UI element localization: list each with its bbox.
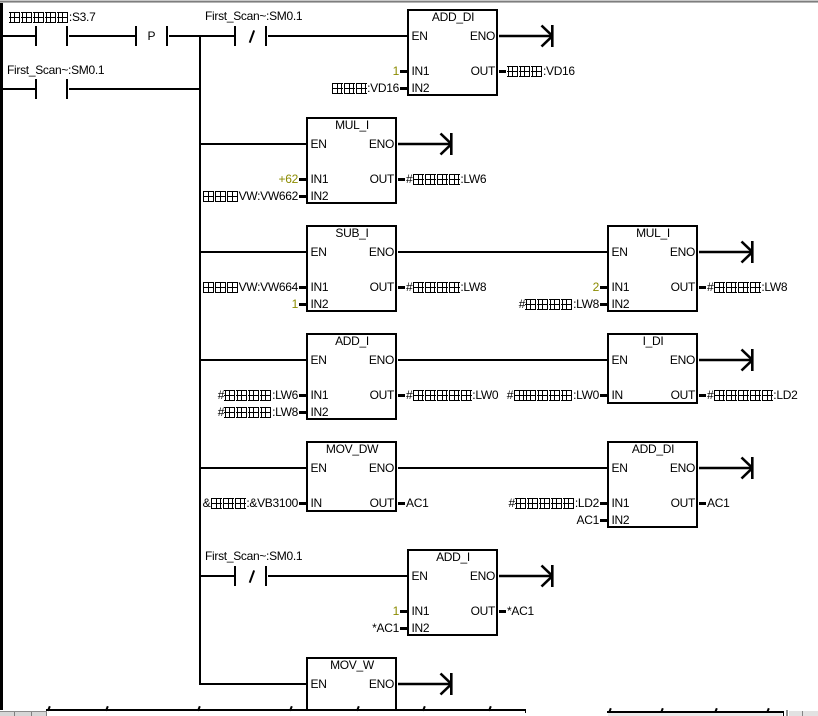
operand *AC1 at OUT U9 [507,605,534,617]
pin label EN U7 [311,462,327,474]
operand (CJK):VD16 at OUT U1 [507,65,575,77]
box ADD_DI U8 [607,441,698,528]
stub IN2 U8 [600,519,607,522]
pin label IN1 U9 [412,605,430,617]
label NC contact First_Scan~:SM0.1 rung7 [205,550,302,562]
box ADD_I U5 [306,333,397,420]
toolbar bottom edge (top gray strip) [0,0,818,1]
operand AC1 at OUT U8 [707,497,729,509]
pin label ENO U5 [369,354,394,366]
constant 1 at IN1 U9 [393,605,399,617]
pin label OUT U2 [370,173,394,185]
box ADD_DI U1 [407,9,498,96]
pin label EN U2 [311,138,327,150]
box MUL_I U2 [306,117,397,204]
operand #(CJK):LW8 at IN2 U4 [519,298,599,310]
bottom-left header cells gray line [0,711,47,712]
label contact K1 operand (CJK):S3.7 [9,11,95,23]
stub IN1 U6 [600,394,607,397]
operand (CJK)VW:VW662 at IN2 U2 [203,190,298,202]
stub IN1 U3 [299,286,306,289]
stub OUT U5 [398,394,405,397]
NC contact rung7 slash [249,570,255,582]
pin label IN U7 [311,497,322,509]
pin label OUT U3 [370,281,394,293]
bottom-right corner cells [786,710,788,716]
open wire arrow rung6 [699,455,759,481]
title ADD_I U5 [306,335,398,347]
pin label OUT U8 [671,497,695,509]
P edge contact bar2 [166,26,169,46]
pin label ENO U8 [670,462,695,474]
bottom right grid tick at x=609 [608,708,611,713]
constant 1 at IN1 U1 [393,65,399,77]
rung1 wire: K1 to P contact [69,35,136,38]
operand (CJK)VW:VW664 at IN1 U3 [203,281,298,293]
stub IN1 U8 [600,502,607,505]
rung2 wire: rail to contact K2 [2,88,35,91]
pin label IN1 U1 [412,65,430,77]
NC contact rung1 slash [249,30,255,42]
pin label IN2 U2 [311,190,329,202]
pin label EN U9 [412,570,428,582]
open wire arrow rung1 [499,23,559,49]
operand *AC1 at IN2 U9 [372,622,399,634]
pin label OUT U6 [671,389,695,401]
bottom right grid fill [608,713,782,716]
rung1 wire: P contact to NC contact junction [169,35,235,38]
operand #(CJK):LD2 at IN1 U8 [509,497,599,509]
title MUL_I U2 [306,119,398,131]
pin label EN U3 [311,246,327,258]
stub IN1 U9 [400,610,407,613]
NC contact rung1 bar1 [234,26,237,46]
rung7 wire: trunk to NC contact [199,575,234,578]
title MOV_DW U7 [306,443,398,455]
NC contact rung1 bar2 [265,26,268,46]
label contact K2 First_Scan~:SM0.1 [7,64,104,76]
P edge contact letter [148,30,156,42]
pin label OUT U4 [671,281,695,293]
pin label IN2 U9 [412,622,430,634]
contact K1 bar2 [66,26,69,46]
stub IN2 U3 [299,303,306,306]
stub IN2 U5 [299,411,306,414]
pin label IN2 U4 [612,298,630,310]
pin label IN1 U5 [311,389,329,401]
box ADD_I U9 [407,549,498,636]
pin label EN U5 [311,354,327,366]
bottom grid tick at x=357 [356,706,359,711]
pin label OUT U5 [370,389,394,401]
bottom grid tick at x=198 [197,706,200,711]
rung1 wire: rail to contact K1 [2,35,35,38]
operand &(CJK):&VB3100 at IN U7 [203,497,298,509]
operand #(CJK):LW6 at IN1 U5 [218,389,298,401]
stub OUT U2 [398,178,405,181]
rung8 wire: trunk corner to MOV_W EN [199,683,306,686]
stub IN1 U2 [299,178,306,181]
rung4 wire: SUB_I ENO to MUL_I EN [398,251,607,254]
contact K2 bar1 [35,79,38,99]
pin label IN1 U4 [612,281,630,293]
bottom right grid end cap [783,711,785,716]
box I_DI U6 [607,333,698,404]
pin label ENO U10 [369,678,394,690]
stub IN1 U4 [600,286,607,289]
pin label ENO U1 [470,30,495,42]
pin label ENO U3 [369,246,394,258]
operand #(CJK):LW0 at OUT U5 [406,389,498,401]
bottom right grid tick at x=715 [714,708,717,713]
rung6 wire: trunk to MOV_DW EN [199,467,306,470]
rung5 wire: trunk to ADD_I EN [199,359,306,362]
rung2 wire: K2 to trunk [69,88,201,91]
bottom grid tick at x=489 [488,706,491,711]
NC contact rung7 bar1 [234,566,237,586]
bottom right grid tick at x=767 [766,708,769,713]
pin label IN2 U8 [612,514,630,526]
rung4 wire: trunk to SUB_I EN [199,251,306,254]
operand AC1 at IN2 U8 [577,514,599,526]
bottom grid tick at x=106 [105,706,108,711]
pin label IN2 U1 [412,82,430,94]
label NC contact First_Scan~:SM0.1 rung1 [205,10,302,22]
title MOV_W U10 [306,659,398,671]
constant 2 at IN1 U4 [593,281,599,293]
stub IN2 U2 [299,195,306,198]
rung7 wire: NC contact to ADD_I EN [268,575,408,578]
pin label EN U6 [612,354,628,366]
open wire arrow rung8 [398,671,458,697]
stub OUT U6 [699,394,706,397]
pin label OUT U7 [370,497,394,509]
stub IN1 U7 [299,502,306,505]
stub OUT U8 [699,502,706,505]
pin label IN1 U2 [311,173,329,185]
open wire arrow rung7 [499,563,559,589]
bottom-left header cells [0,712,47,716]
pin label IN1 U3 [311,281,329,293]
operand #(CJK):LD2 at OUT U6 [707,389,797,401]
stub IN2 U4 [600,303,607,306]
vertical trunk bus [199,35,202,686]
pin label IN1 U8 [612,497,630,509]
pin label EN U4 [612,246,628,258]
stub IN1 U1 [400,70,407,73]
pin label ENO U2 [369,138,394,150]
stub OUT U7 [398,502,405,505]
stub IN1 U5 [299,394,306,397]
pin label ENO U9 [470,570,495,582]
pin label OUT U1 [471,65,495,77]
stub OUT U4 [699,286,706,289]
bottom grid tick at x=290 [289,706,292,711]
title ADD_I U9 [407,551,499,563]
bottom pane: right grid top border [607,711,784,713]
bottom grid tick at x=423 [422,706,425,711]
pin label ENO U4 [670,246,695,258]
stub IN2 U1 [400,87,407,90]
pin label IN U6 [612,389,623,401]
P edge contact bar1 [135,26,138,46]
box MUL_I U4 [607,225,698,312]
open wire arrow rung5 [699,347,759,373]
open wire arrow rung4 [699,239,759,265]
title MUL_I U4 [607,227,699,239]
title I_DI U6 [607,335,699,347]
operand #(CJK):LW8 at OUT U4 [707,281,787,293]
pin label IN2 U5 [311,406,329,418]
constant 1 at IN2 U3 [292,298,298,310]
left power rail [0,3,3,710]
rung1 wire: NC contact to ADD_DI EN [268,35,408,38]
rung3 wire: trunk to MUL_I EN [199,143,306,146]
bottom grid tick at x=48 [47,706,50,711]
pin label OUT U9 [471,605,495,617]
pin label ENO U7 [369,462,394,474]
rung5 wire: ADD_I ENO to I_DI EN [398,359,607,362]
bottom right grid tick at x=661 [660,708,663,713]
rung6 wire: MOV_DW ENO to ADD_DI EN [398,467,607,470]
pin label ENO U6 [670,354,695,366]
bottom pane: left grid top border [46,709,526,711]
open wire arrow rung3 [398,131,458,157]
operand #(CJK):LW8 at IN2 U5 [218,406,298,418]
constant +62 at IN1 U2 [279,173,298,185]
pin label EN U1 [412,30,428,42]
stub OUT U3 [398,286,405,289]
title SUB_I U3 [306,227,398,239]
operand #(CJK):LW6 at OUT U2 [406,173,486,185]
box MOV_DW U7 [306,441,397,512]
stub IN2 U9 [400,627,407,630]
title ADD_DI U1 [407,11,499,23]
operand AC1 at OUT U7 [406,497,428,509]
stub OUT U9 [499,610,506,613]
operand (CJK):VD16 at IN2 U1 [331,82,399,94]
pin label EN U10 [311,678,327,690]
operand #(CJK):LW8 at OUT U3 [406,281,486,293]
operand #(CJK):LW0 at IN U6 [507,389,599,401]
contact K2 bar2 [66,79,69,99]
pin label IN2 U3 [311,298,329,310]
box SUB_I U3 [306,225,397,312]
stub OUT U1 [499,70,506,73]
pin label EN U8 [612,462,628,474]
title ADD_DI U8 [607,443,699,455]
bottom grid left end hook [525,709,527,713]
box MOV_W U10 (clipped by bottom pane) [306,657,397,711]
contact K1 bar1 [35,26,38,46]
NC contact rung7 bar2 [265,566,268,586]
